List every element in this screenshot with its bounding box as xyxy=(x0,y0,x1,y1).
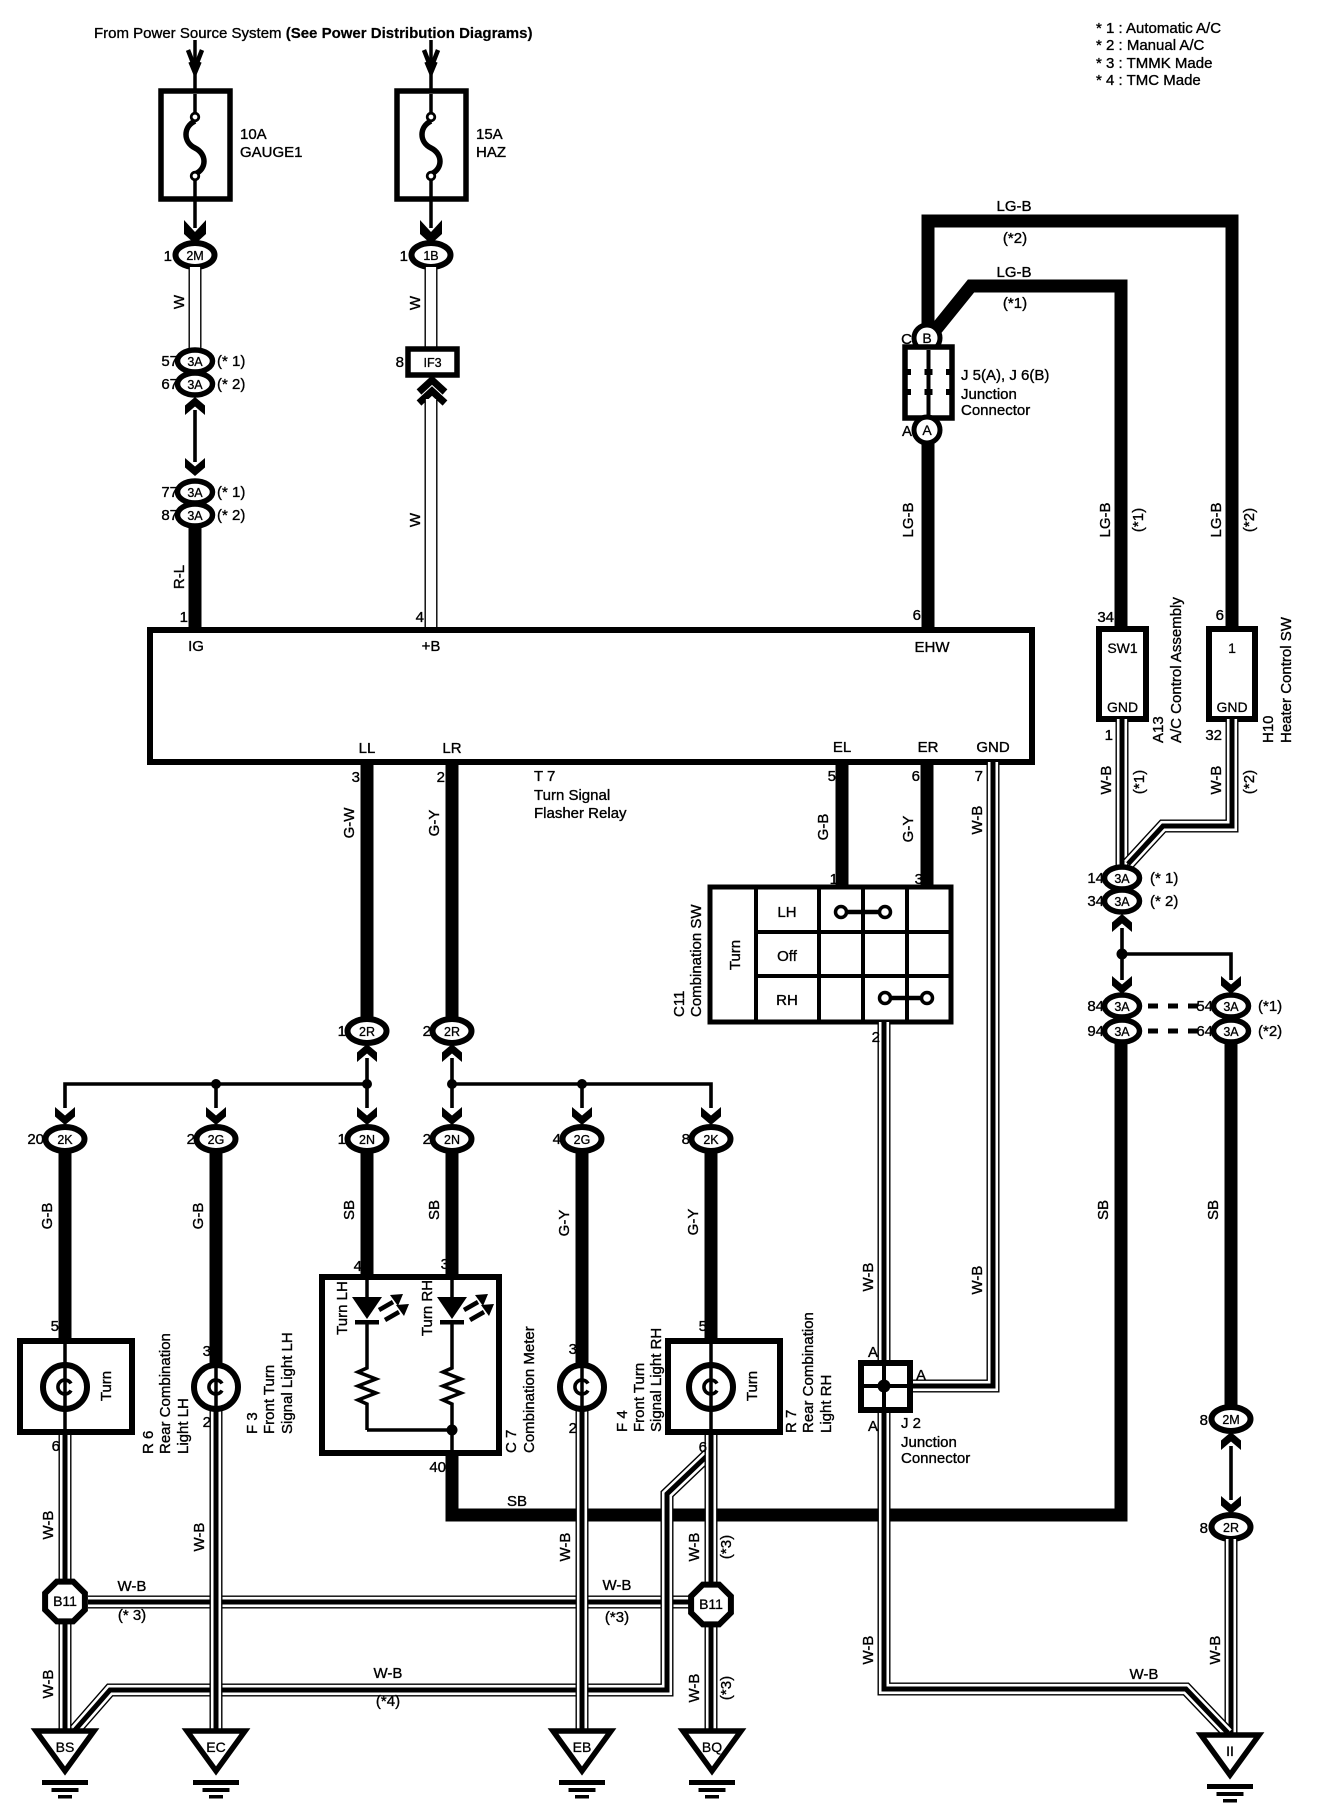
svg-text:LG-B: LG-B xyxy=(900,502,917,537)
svg-text:B: B xyxy=(922,330,931,346)
svg-text:A: A xyxy=(868,1344,878,1361)
svg-text:BS: BS xyxy=(56,1739,75,1755)
svg-text:G-W: G-W xyxy=(341,807,358,839)
svg-text:Light LH: Light LH xyxy=(175,1398,192,1454)
svg-text:2: 2 xyxy=(437,769,445,786)
connector 3A pin 64 (*2) xyxy=(1196,1020,1282,1042)
connector 3A pin 94 xyxy=(1087,1020,1139,1042)
connector 2N pin 1 xyxy=(338,1127,387,1151)
fuse 15A HAZ xyxy=(397,91,466,199)
svg-text:LG-B: LG-B xyxy=(1097,502,1114,537)
svg-text:Turn: Turn xyxy=(744,1371,761,1401)
connector 1/GND heater control SW xyxy=(1209,629,1255,719)
svg-text:57: 57 xyxy=(161,353,178,370)
svg-text:4: 4 xyxy=(354,1258,362,1275)
connector 2M pin 8 xyxy=(1200,1407,1251,1431)
svg-text:54: 54 xyxy=(1196,998,1213,1015)
svg-text:2G: 2G xyxy=(574,1133,591,1147)
svg-text:(* 2): (* 2) xyxy=(217,507,245,524)
svg-text:J 2: J 2 xyxy=(901,1415,921,1432)
svg-text:2: 2 xyxy=(423,1023,431,1040)
wire W from 1B to IF3 xyxy=(430,267,432,350)
svg-text:1: 1 xyxy=(338,1131,346,1148)
svg-text:2K: 2K xyxy=(57,1133,73,1147)
J2 junction connector xyxy=(861,1363,910,1410)
svg-text:4: 4 xyxy=(553,1131,561,1148)
ground BQ xyxy=(683,1731,741,1799)
svg-text:14: 14 xyxy=(1087,870,1104,887)
wire between 3A pairs xyxy=(185,397,205,476)
svg-text:LL: LL xyxy=(359,740,376,757)
connector 2K pin 20 xyxy=(27,1127,84,1151)
svg-text:LG-B: LG-B xyxy=(996,264,1031,281)
wire W-B from J2 to ground II xyxy=(884,1410,1228,1733)
combination SW C11 box xyxy=(710,887,951,1022)
svg-text:Junction: Junction xyxy=(961,386,1017,403)
svg-text:RH: RH xyxy=(776,992,798,1009)
connector 2N pin 2 xyxy=(423,1127,472,1151)
svg-text:W-B: W-B xyxy=(860,1636,877,1665)
R7 rear combination light RH xyxy=(668,1341,780,1432)
svg-text:2M: 2M xyxy=(186,249,203,263)
junction node xyxy=(362,1079,372,1089)
resistor RH xyxy=(443,1364,461,1409)
F4 front turn signal light RH bulb xyxy=(560,1365,604,1409)
link wire stub 2G4 xyxy=(580,1084,584,1108)
svg-text:R 6: R 6 xyxy=(140,1431,157,1454)
svg-text:(*2): (*2) xyxy=(1241,508,1258,532)
wire G-B to R6 xyxy=(59,1151,72,1341)
combination meter LED turn RH xyxy=(437,1280,467,1364)
svg-text:1: 1 xyxy=(1105,727,1113,744)
svg-text:2: 2 xyxy=(569,1420,577,1437)
junction node meter xyxy=(447,1425,458,1436)
C7 combination meter box xyxy=(322,1277,499,1453)
svg-text:LG-B: LG-B xyxy=(1208,502,1225,537)
wire link to junction xyxy=(1120,928,1124,980)
svg-text:Connector: Connector xyxy=(961,402,1030,419)
wire G-Y to R7 xyxy=(705,1151,718,1341)
wire W-B from F3 to ground EC xyxy=(215,1410,217,1731)
svg-text:IG: IG xyxy=(188,638,204,655)
arrow down into 3A 84 xyxy=(1112,976,1132,994)
svg-text:A: A xyxy=(916,1367,926,1384)
wire W-B from 2R to ground II xyxy=(1230,1539,1232,1735)
svg-text:6: 6 xyxy=(1216,607,1224,624)
arrow down into 2K 20 xyxy=(55,1107,75,1125)
svg-text:Turn: Turn xyxy=(98,1371,115,1401)
fuse 10A GAUGE1 xyxy=(161,91,230,199)
svg-text:W-B: W-B xyxy=(557,1533,574,1562)
svg-text:G-B: G-B xyxy=(39,1203,56,1230)
svg-text:3A: 3A xyxy=(1223,1025,1239,1039)
svg-text:* 4 : TMC Made: * 4 : TMC Made xyxy=(1096,72,1201,89)
svg-text:2: 2 xyxy=(203,1414,211,1431)
wire LH LED to common xyxy=(365,1409,369,1430)
svg-text:2R: 2R xyxy=(444,1025,460,1039)
svg-text:3A: 3A xyxy=(187,486,203,500)
svg-text:84: 84 xyxy=(1087,998,1104,1015)
svg-text:(* 1): (* 1) xyxy=(217,484,245,501)
dashed link between 3A pairs row1 xyxy=(1148,1004,1198,1009)
svg-text:3: 3 xyxy=(569,1341,577,1358)
connector B11 left xyxy=(45,1582,85,1622)
svg-text:SB: SB xyxy=(1205,1200,1222,1220)
svg-text:C 7: C 7 xyxy=(503,1430,520,1453)
svg-text:(* 2): (* 2) xyxy=(217,376,245,393)
ground II xyxy=(1201,1735,1259,1803)
svg-text:3: 3 xyxy=(352,769,360,786)
LED arrows LH xyxy=(379,1294,409,1320)
svg-text:5: 5 xyxy=(828,768,836,785)
ground BS xyxy=(36,1731,94,1799)
connector 2R pin 2 xyxy=(423,1019,472,1043)
svg-text:* 1 : Automatic A/C: * 1 : Automatic A/C xyxy=(1096,20,1221,37)
wire R-L to relay IG xyxy=(189,526,202,630)
svg-text:3A: 3A xyxy=(1114,872,1130,886)
wire W-B (*1) from A/C GND to 3A xyxy=(1121,719,1123,867)
svg-text:15A: 15A xyxy=(476,126,503,143)
connector IF3 pin 8 xyxy=(396,349,457,375)
svg-text:* 2 : Manual A/C: * 2 : Manual A/C xyxy=(1096,37,1205,54)
R6 rear combination light LH xyxy=(20,1341,132,1432)
arrow down into 2G 4 xyxy=(572,1107,592,1125)
svg-text:(* 2): (* 2) xyxy=(1150,893,1178,910)
svg-text:8: 8 xyxy=(1200,1520,1208,1537)
F3 front turn signal light LH bulb xyxy=(194,1365,238,1409)
svg-text:(* 1): (* 1) xyxy=(1150,870,1178,887)
svg-text:B11: B11 xyxy=(699,1596,723,1612)
svg-text:2R: 2R xyxy=(1223,1521,1239,1535)
wire W-B (*3) from R7 to ground BQ through B11 xyxy=(710,1432,712,1731)
arrow down into 2N 1 xyxy=(357,1107,377,1125)
arrow down into 3A 54 xyxy=(1221,976,1241,994)
svg-text:(*4): (*4) xyxy=(376,1693,400,1710)
arrow down into 2K 8 xyxy=(701,1107,721,1125)
svg-text:Combination SW: Combination SW xyxy=(688,904,705,1017)
svg-text:32: 32 xyxy=(1205,727,1222,744)
svg-text:SB: SB xyxy=(1095,1200,1112,1220)
connector 3A pin 34 (*2) xyxy=(1087,890,1178,912)
wire G-Y from relay LR xyxy=(446,762,459,1019)
wire W-B from relay GND to J2 xyxy=(889,762,993,1386)
svg-text:W-B: W-B xyxy=(1208,766,1225,795)
svg-text:(*1): (*1) xyxy=(1131,770,1148,794)
svg-text:II: II xyxy=(1226,1743,1234,1759)
switch contact RH xyxy=(880,993,933,1004)
common wire inside meter xyxy=(367,1409,452,1453)
svg-text:2M: 2M xyxy=(1222,1413,1239,1427)
svg-text:8: 8 xyxy=(396,354,404,371)
svg-text:1: 1 xyxy=(180,609,188,626)
svg-text:34: 34 xyxy=(1097,609,1114,626)
svg-text:SB: SB xyxy=(507,1493,527,1510)
arrow down into 2G 2 xyxy=(206,1107,226,1125)
wire W-B from F4 to ground EB xyxy=(581,1409,583,1731)
svg-text:Turn Signal: Turn Signal xyxy=(534,787,610,804)
svg-text:+B: +B xyxy=(422,638,441,655)
wire SB from 3A to combination meter (bus) xyxy=(452,1042,1121,1515)
svg-text:G-B: G-B xyxy=(815,814,832,841)
connector 2M pin 1 xyxy=(164,243,215,267)
connector 3A pin 84 xyxy=(1087,995,1139,1017)
svg-text:64: 64 xyxy=(1196,1023,1213,1040)
svg-text:3A: 3A xyxy=(187,509,203,523)
wire G-W from relay LL xyxy=(361,762,374,1019)
svg-text:3: 3 xyxy=(203,1343,211,1360)
svg-text:Heater Control SW: Heater Control SW xyxy=(1278,616,1295,743)
wire W-B from R6 to ground BS through B11 xyxy=(64,1432,66,1731)
svg-text:(*2): (*2) xyxy=(1241,770,1258,794)
svg-text:G-B: G-B xyxy=(190,1203,207,1230)
wire W from IF3 to relay +B xyxy=(430,399,432,630)
svg-text:(*1): (*1) xyxy=(1258,998,1282,1015)
svg-text:(* 3): (* 3) xyxy=(118,1607,146,1624)
svg-text:W-B: W-B xyxy=(603,1577,632,1594)
switch contact LH xyxy=(836,907,891,918)
svg-text:6: 6 xyxy=(699,1439,707,1456)
svg-text:Connector: Connector xyxy=(901,1450,970,1467)
svg-text:8: 8 xyxy=(1200,1412,1208,1429)
svg-text:6: 6 xyxy=(52,1438,60,1455)
svg-text:1B: 1B xyxy=(423,249,438,263)
connector 3A pin 87 (*2) xyxy=(161,504,245,526)
svg-text:W-B: W-B xyxy=(969,806,986,835)
svg-text:3A: 3A xyxy=(1114,1025,1130,1039)
svg-text:A: A xyxy=(922,422,932,438)
resistor LH xyxy=(358,1364,376,1409)
svg-text:3A: 3A xyxy=(1114,895,1130,909)
svg-text:(*3): (*3) xyxy=(718,1676,735,1700)
wire from power source to fuse GAUGE1 xyxy=(188,40,202,91)
svg-text:W-B: W-B xyxy=(191,1523,208,1552)
svg-text:1: 1 xyxy=(400,248,408,265)
wire LG-B (*2) from J5 B to heater control SW xyxy=(928,221,1232,630)
wire LG-B from J5 A to relay EHW xyxy=(922,443,935,630)
connector SW1/GND A/C control assembly xyxy=(1099,629,1146,719)
link bus wire xyxy=(65,1084,367,1108)
svg-text:94: 94 xyxy=(1087,1023,1104,1040)
svg-text:2: 2 xyxy=(872,1029,880,1046)
svg-text:Rear Combination: Rear Combination xyxy=(800,1312,817,1433)
svg-text:A: A xyxy=(868,1418,878,1435)
svg-text:W: W xyxy=(407,512,424,527)
svg-text:3A: 3A xyxy=(187,378,203,392)
wire G-B from relay EL to combination SW xyxy=(836,762,849,889)
svg-text:2N: 2N xyxy=(359,1133,375,1147)
arrow down into 2N 2 xyxy=(442,1107,462,1125)
svg-text:5: 5 xyxy=(699,1318,707,1335)
svg-text:7: 7 xyxy=(975,768,983,785)
wire W-B (*4) bus from ground BS to R7 xyxy=(75,1452,711,1730)
svg-text:3A: 3A xyxy=(1114,1000,1130,1014)
junction connector J5(A) J6(B) xyxy=(901,325,954,443)
svg-text:67: 67 xyxy=(161,376,178,393)
wire LG-B (*1) from J5 B to A/C control assembly xyxy=(933,286,1121,630)
svg-text:2: 2 xyxy=(187,1131,195,1148)
svg-text:J 5(A), J 6(B): J 5(A), J 6(B) xyxy=(961,367,1049,384)
svg-text:(* 1): (* 1) xyxy=(217,353,245,370)
wire fuse GAUGE1 to connector 2M xyxy=(184,199,206,244)
svg-text:SW1: SW1 xyxy=(1107,640,1138,656)
arrows and wire between 2M and 2R xyxy=(1221,1432,1241,1514)
wire SB from 3A to connector 2M xyxy=(1225,1042,1238,1407)
svg-text:2K: 2K xyxy=(703,1133,719,1147)
svg-text:2: 2 xyxy=(423,1131,431,1148)
link wire 2R2 to 2N2 xyxy=(450,1058,454,1108)
connector 3A pin 67 (*2) xyxy=(161,373,245,395)
connector 2G pin 4 xyxy=(553,1127,602,1151)
svg-text:6: 6 xyxy=(912,768,920,785)
svg-text:F 4: F 4 xyxy=(614,1410,631,1432)
svg-text:W: W xyxy=(171,294,188,309)
svg-text:EB: EB xyxy=(573,1739,592,1755)
svg-text:Turn: Turn xyxy=(727,940,744,970)
svg-text:LG-B: LG-B xyxy=(996,198,1031,215)
svg-text:GAUGE1: GAUGE1 xyxy=(240,144,303,161)
wire SB to combination meter LH xyxy=(361,1151,374,1277)
svg-text:GND: GND xyxy=(976,739,1010,756)
svg-text:G-Y: G-Y xyxy=(685,1209,702,1236)
svg-text:Front Turn: Front Turn xyxy=(631,1363,648,1432)
svg-text:IF3: IF3 xyxy=(423,356,441,370)
svg-text:Rear Combination: Rear Combination xyxy=(157,1333,174,1454)
svg-text:3A: 3A xyxy=(187,355,203,369)
svg-text:1: 1 xyxy=(164,248,172,265)
svg-text:EHW: EHW xyxy=(915,639,951,656)
connector 2G pin 2 xyxy=(187,1127,236,1151)
svg-text:Signal Light LH: Signal Light LH xyxy=(279,1332,296,1434)
combination meter LED turn LH xyxy=(352,1280,382,1364)
svg-text:F 3: F 3 xyxy=(244,1412,261,1434)
svg-text:W-B: W-B xyxy=(40,1670,57,1699)
svg-text:40: 40 xyxy=(429,1459,446,1476)
ground EB xyxy=(553,1731,611,1799)
svg-text:87: 87 xyxy=(161,507,178,524)
chevron arrows below IF3 xyxy=(419,380,445,403)
svg-text:1: 1 xyxy=(1228,640,1236,656)
svg-text:* 3 : TMMK Made: * 3 : TMMK Made xyxy=(1096,55,1212,72)
svg-text:HAZ: HAZ xyxy=(476,144,506,161)
svg-text:A/C Control Assembly: A/C Control Assembly xyxy=(1168,597,1185,743)
svg-text:3A: 3A xyxy=(1223,1000,1239,1014)
svg-text:W-B: W-B xyxy=(686,1674,703,1703)
svg-text:(*1): (*1) xyxy=(1130,508,1147,532)
svg-text:SB: SB xyxy=(341,1200,358,1220)
link bus wire right xyxy=(452,1084,711,1108)
ground EC xyxy=(187,1731,245,1799)
svg-text:Flasher Relay: Flasher Relay xyxy=(534,805,627,822)
junction node xyxy=(211,1079,221,1089)
connector 1B pin 1 xyxy=(400,243,451,267)
svg-text:SB: SB xyxy=(426,1200,443,1220)
svg-text:ER: ER xyxy=(918,739,939,756)
svg-text:34: 34 xyxy=(1087,893,1104,910)
svg-text:W: W xyxy=(407,295,424,310)
svg-text:GND: GND xyxy=(1216,699,1247,715)
connector 2R pin 8 xyxy=(1200,1515,1251,1539)
svg-text:A13: A13 xyxy=(1150,716,1167,743)
svg-text:2N: 2N xyxy=(444,1133,460,1147)
svg-text:(*3): (*3) xyxy=(605,1609,629,1626)
svg-text:G-Y: G-Y xyxy=(556,1210,573,1237)
wire from power source to fuse HAZ xyxy=(424,40,438,91)
arrow up into 2R 1 xyxy=(357,1044,377,1062)
svg-text:8: 8 xyxy=(682,1131,690,1148)
svg-text:Turn LH: Turn LH xyxy=(334,1281,351,1335)
svg-text:77: 77 xyxy=(161,484,178,501)
svg-text:W-B: W-B xyxy=(1130,1666,1159,1683)
svg-text:GND: GND xyxy=(1107,699,1138,715)
svg-text:W-B: W-B xyxy=(1207,1636,1224,1665)
dashed link between 3A pairs row2 xyxy=(1148,1029,1198,1034)
wire W-B (*3) bus between B11 connectors xyxy=(88,1601,691,1603)
svg-text:Combination Meter: Combination Meter xyxy=(521,1326,538,1453)
svg-text:R 7: R 7 xyxy=(783,1410,800,1433)
svg-text:A: A xyxy=(902,423,912,440)
svg-text:1: 1 xyxy=(338,1023,346,1040)
svg-text:Off: Off xyxy=(777,948,798,965)
svg-text:(*2): (*2) xyxy=(1003,230,1027,247)
svg-text:W-B: W-B xyxy=(40,1511,57,1540)
svg-text:W-B: W-B xyxy=(118,1578,147,1595)
svg-text:4: 4 xyxy=(416,609,424,626)
wire SB to combination meter RH xyxy=(446,1151,459,1277)
connector B11 right xyxy=(691,1585,731,1625)
svg-text:LR: LR xyxy=(442,740,461,757)
wire W-B (*2) from heater GND to 3A xyxy=(1128,719,1232,864)
svg-text:R-L: R-L xyxy=(171,565,188,589)
connector 2K pin 8 xyxy=(682,1127,731,1151)
svg-text:W-B: W-B xyxy=(1098,766,1115,795)
arrow up into 3A 34 xyxy=(1112,914,1132,932)
svg-text:3: 3 xyxy=(441,1256,449,1273)
svg-text:W-B: W-B xyxy=(969,1266,986,1295)
svg-text:Light RH: Light RH xyxy=(818,1375,835,1433)
link wire stub 2G2 xyxy=(214,1084,218,1108)
svg-text:LH: LH xyxy=(777,904,796,921)
svg-text:20: 20 xyxy=(27,1131,44,1148)
svg-text:BQ: BQ xyxy=(702,1739,722,1755)
svg-text:Front Turn: Front Turn xyxy=(261,1365,278,1434)
connector 3A pin 54 (*1) xyxy=(1196,995,1282,1017)
link wire 2R1 to 2N1 xyxy=(365,1058,369,1108)
svg-text:2R: 2R xyxy=(359,1025,375,1039)
svg-text:10A: 10A xyxy=(240,126,267,143)
svg-text:G-Y: G-Y xyxy=(900,816,917,843)
svg-text:W-B: W-B xyxy=(374,1665,403,1682)
wire W from 2M to 3A xyxy=(194,267,196,351)
svg-text:W-B: W-B xyxy=(860,1263,877,1292)
wire G-Y from relay ER to combination SW xyxy=(921,762,934,889)
LED arrows RH xyxy=(464,1294,494,1320)
svg-text:W-B: W-B xyxy=(686,1533,703,1562)
svg-text:6: 6 xyxy=(913,607,921,624)
connector 3A pin 77 (*1) xyxy=(161,481,245,503)
wire G-B to F3 xyxy=(210,1151,223,1366)
arrow up into 2R 2 xyxy=(442,1044,462,1062)
connector 3A pin 14 (*1) xyxy=(1087,867,1178,889)
svg-text:Junction: Junction xyxy=(901,1434,957,1451)
svg-text:EL: EL xyxy=(833,739,851,756)
wire W-B from combination SW pin 2 to J2 xyxy=(883,1022,885,1386)
svg-text:C11: C11 xyxy=(671,991,688,1017)
svg-text:H10: H10 xyxy=(1260,715,1277,743)
connector 3A pin 57 (*1) xyxy=(161,350,245,372)
svg-text:From Power Source System (See: From Power Source System (See Power Dist… xyxy=(94,25,532,42)
svg-text:(*2): (*2) xyxy=(1258,1023,1282,1040)
relay T7 box xyxy=(150,630,1032,762)
